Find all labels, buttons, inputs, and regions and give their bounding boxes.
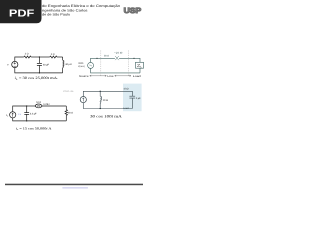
bottom wire circuit 1 xyxy=(15,68,63,73)
page background xyxy=(0,0,149,198)
parallel RL element (ellipse with cross) xyxy=(35,104,42,108)
current source I2 xyxy=(80,97,86,103)
inductor L1 xyxy=(63,57,64,73)
PDF badge xyxy=(0,0,42,23)
wire element to top-right corner xyxy=(42,105,66,107)
node F dot xyxy=(100,108,101,109)
element terminal dot left xyxy=(35,106,36,107)
load highlight box xyxy=(123,84,142,112)
wire node C to parallel element xyxy=(27,105,36,107)
voltage source V2 xyxy=(88,62,94,68)
USP logo xyxy=(124,6,142,15)
dashed separator line/load xyxy=(128,50,130,75)
node B dot xyxy=(39,72,40,73)
svg-text:40 μH: 40 μH xyxy=(65,63,72,66)
svg-text:Line: Line xyxy=(107,75,114,78)
dashed separator source/line xyxy=(100,50,102,75)
bottom wire circuit 4 xyxy=(83,103,132,109)
svg-text:20 Ω: 20 Ω xyxy=(104,55,109,58)
capacitor C3 xyxy=(24,106,29,121)
resistor R1 xyxy=(24,56,31,58)
svg-text:1 mH: 1 mH xyxy=(43,103,49,106)
load impedance label ZL xyxy=(137,64,141,67)
node E dot xyxy=(100,91,101,92)
resistor R3 (right branch) xyxy=(65,106,67,121)
wire V2 top to line section xyxy=(91,58,115,62)
wire load box to bottom xyxy=(139,68,141,73)
voltage source V1 xyxy=(12,61,18,67)
svg-text:iL = 30 cos 25,000t mA.: iL = 30 cos 25,000t mA. xyxy=(15,76,59,81)
capacitor C1 xyxy=(37,57,42,73)
arrow line-load xyxy=(115,75,131,77)
wire R1 to node A xyxy=(31,56,39,58)
svg-text:40 μF: 40 μF xyxy=(43,63,50,66)
svg-text:V(rms): V(rms) xyxy=(78,65,85,68)
wire I1 top to node C xyxy=(13,106,27,112)
bottom wire circuit 3 xyxy=(13,118,67,121)
node dot right of line section xyxy=(133,58,134,59)
capacitor C4 (load) xyxy=(129,96,135,108)
svg-text:2 μF: 2 μF xyxy=(136,97,141,100)
svg-text:−j4 Ω: −j4 Ω xyxy=(114,51,123,54)
svg-text:10 H: 10 H xyxy=(103,99,108,102)
svg-text:Load: Load xyxy=(123,107,129,110)
svg-text:20 Ω: 20 Ω xyxy=(68,112,73,115)
wire I2 top rail xyxy=(83,91,132,96)
svg-text:2.2 μF: 2.2 μF xyxy=(30,113,37,116)
wire X to load corner xyxy=(119,58,140,62)
footer link underline xyxy=(62,187,88,190)
bottom wire circuit 2 xyxy=(91,68,140,73)
arrow source-line xyxy=(90,75,107,77)
svg-text:USP: USP xyxy=(124,6,142,15)
svg-text:30 cos 100t mA: 30 cos 100t mA xyxy=(90,114,122,118)
svg-text:Load: Load xyxy=(133,75,142,78)
svg-text:2000: 2000 xyxy=(78,62,84,65)
svg-text:de de São Paulo: de de São Paulo xyxy=(42,12,70,16)
svg-text:20-0-4e: 20-0-4e xyxy=(63,90,74,93)
resistor R2 xyxy=(50,56,57,58)
svg-text:10 Ω: 10 Ω xyxy=(36,101,41,104)
wire R2 to top-right corner xyxy=(57,56,63,58)
svg-text:Source: Source xyxy=(79,75,89,78)
svg-text:2 Ω: 2 Ω xyxy=(25,53,29,56)
load box ZL xyxy=(136,62,144,68)
wire top-left V1 to R1 xyxy=(15,57,24,61)
node A dot xyxy=(39,56,40,57)
node dot left of line section xyxy=(96,58,97,59)
svg-text:is = 15 cos 50,000t A: is = 15 cos 50,000t A xyxy=(16,126,52,131)
svg-text:2 Ω: 2 Ω xyxy=(51,53,55,56)
node C dot xyxy=(26,105,27,106)
footer rule xyxy=(5,184,143,186)
element terminal dot right xyxy=(41,106,42,107)
current source I1 xyxy=(10,112,16,118)
inductor L4 (middle branch) xyxy=(100,91,101,108)
reactance element X (line impedance) xyxy=(115,56,119,60)
node D dot xyxy=(26,120,27,121)
svg-text:PDF: PDF xyxy=(9,9,34,20)
wire node A to R2 xyxy=(39,56,49,58)
svg-text:4 kΩ: 4 kΩ xyxy=(124,88,129,91)
